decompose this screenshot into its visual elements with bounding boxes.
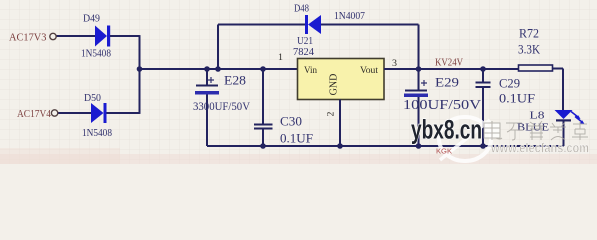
wire D50 to junction bbox=[107, 112, 140, 114]
svg-text:1N4007: 1N4007 bbox=[334, 11, 365, 22]
junction dot top-wire tap right bbox=[416, 66, 422, 72]
wire top bypass right vertical down to E29 bbox=[418, 25, 420, 90]
svg-text:3300UF/50V: 3300UF/50V bbox=[193, 101, 251, 113]
capacitor E29 plus mark bbox=[421, 80, 427, 86]
wire top bypass right horizontal bbox=[321, 24, 419, 26]
capacitor C29 bottom lead bbox=[482, 88, 484, 146]
svg-text:2: 2 bbox=[327, 111, 337, 116]
svg-text:3: 3 bbox=[392, 59, 397, 69]
svg-text:L8: L8 bbox=[530, 110, 546, 122]
svg-text:AC17V4: AC17V4 bbox=[17, 109, 52, 120]
svg-text:C29: C29 bbox=[499, 77, 520, 91]
junction dot diode join bbox=[137, 66, 143, 72]
node AC17V4 port circle bbox=[51, 110, 57, 116]
svg-text:0.1UF: 0.1UF bbox=[499, 91, 535, 106]
svg-text:KV24V: KV24V bbox=[435, 58, 464, 69]
wire left bus to regulator Vin bbox=[140, 68, 298, 70]
svg-text:100UF/50V: 100UF/50V bbox=[403, 97, 481, 112]
bottom pink band bbox=[0, 154, 597, 164]
wire vertical joining D49 and D50 bbox=[139, 35, 141, 114]
capacitor E28 plus mark bbox=[208, 77, 214, 83]
background grid bbox=[0, 0, 597, 164]
capacitor C30 top lead bbox=[262, 69, 264, 124]
svg-text:Vout: Vout bbox=[360, 66, 378, 76]
wire ground bus bbox=[207, 145, 564, 147]
capacitor E28 negative plate bar bbox=[195, 91, 219, 95]
svg-text:Vin: Vin bbox=[304, 66, 317, 76]
wire AC17V4 to D50 bbox=[58, 112, 91, 114]
svg-text:C30: C30 bbox=[280, 114, 302, 129]
svg-text:D50: D50 bbox=[84, 93, 101, 104]
wire right bus KV24V bbox=[384, 68, 519, 70]
LED L8 bbox=[555, 110, 585, 124]
junction dot C29 tap bbox=[480, 66, 486, 72]
svg-text:KGK: KGK bbox=[436, 147, 452, 156]
svg-text:GND: GND bbox=[329, 74, 340, 96]
wire E29 bottom lead bbox=[418, 97, 420, 146]
watermark chinese characters bbox=[484, 121, 588, 140]
svg-text:AC17V3: AC17V3 bbox=[9, 33, 47, 44]
capacitor E29 negative plate bar bbox=[404, 94, 428, 98]
wire top bypass left horizontal bbox=[218, 24, 305, 26]
op-amp U21 regulator box 7824 bbox=[298, 59, 385, 100]
wire R72 to LED corner bbox=[553, 69, 564, 111]
junction dot top-wire tap left bbox=[215, 66, 221, 72]
node AC17V3 port circle bbox=[50, 33, 56, 39]
svg-text:0.1UF: 0.1UF bbox=[280, 131, 313, 146]
watermark swirl logo bbox=[439, 117, 491, 161]
junction dot E28 tap bbox=[204, 66, 210, 72]
svg-text:E28: E28 bbox=[224, 74, 246, 88]
junction dot E29 ground bbox=[416, 143, 422, 149]
svg-text:D49: D49 bbox=[83, 14, 100, 25]
capacitor C30 plates bbox=[254, 125, 273, 129]
capacitor C29 plates bbox=[476, 83, 491, 88]
junction dot C30 ground bbox=[260, 143, 266, 149]
junction dot C30 tap bbox=[260, 66, 266, 72]
svg-text:R72: R72 bbox=[519, 26, 539, 41]
wire E28 top lead bbox=[206, 69, 208, 85]
svg-text:1N5408: 1N5408 bbox=[81, 49, 111, 60]
wire AC17V3 to D49 bbox=[57, 35, 96, 37]
capacitor C29 top lead bbox=[482, 69, 484, 82]
resistor R72 body bbox=[519, 65, 553, 71]
svg-text:D48: D48 bbox=[294, 4, 309, 15]
capacitor E28 positive plate bbox=[196, 85, 218, 87]
svg-text:U21: U21 bbox=[297, 36, 313, 47]
diode D48 bbox=[305, 15, 321, 34]
junction dot pin2 ground bbox=[337, 143, 343, 149]
svg-text:1: 1 bbox=[278, 53, 283, 63]
wire LED bottom lead bbox=[563, 122, 565, 147]
svg-text:1N5408: 1N5408 bbox=[82, 128, 112, 139]
svg-text:7824: 7824 bbox=[293, 47, 314, 58]
wire pin 2 to ground bus bbox=[339, 100, 341, 147]
capacitor E29 positive plate bbox=[405, 90, 427, 92]
diode D50 bbox=[91, 103, 107, 123]
wire top bypass left vertical bbox=[217, 25, 219, 70]
junction dot C29 ground bbox=[480, 143, 486, 149]
svg-text:www.elecfans.com: www.elecfans.com bbox=[490, 141, 589, 156]
svg-text:3.3K: 3.3K bbox=[518, 42, 541, 57]
diode D49 bbox=[95, 26, 110, 47]
svg-text:ybx8.cn: ybx8.cn bbox=[411, 115, 482, 145]
wire E28 bottom lead bbox=[206, 95, 208, 147]
capacitor C30 bottom lead bbox=[262, 130, 264, 147]
svg-text:E29: E29 bbox=[435, 76, 459, 90]
wire D49 to junction bbox=[110, 35, 140, 37]
